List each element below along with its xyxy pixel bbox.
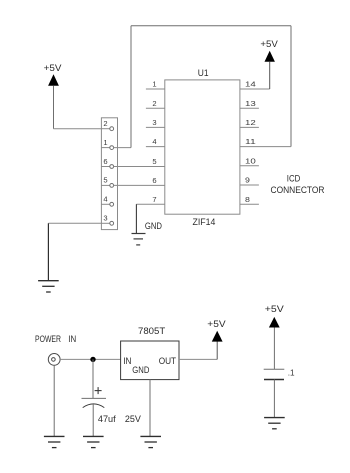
wire connector pin 3 left: [48, 222, 101, 224]
label POWER IN: [35, 334, 76, 345]
U1 pin 8 number: [245, 195, 250, 204]
wire jack to regulator IN: [60, 358, 121, 360]
svg-text:6: 6: [152, 176, 156, 185]
regulator pin label OUT: [159, 356, 177, 367]
svg-text:ZIF14: ZIF14: [193, 217, 217, 228]
svg-text:+5V: +5V: [265, 304, 285, 315]
U1 pin 12 lead: [240, 126, 259, 128]
power flag +5V arrow (top left): [48, 74, 59, 86]
ICD connector pin 5 lead and pad: [101, 184, 113, 188]
wire regulator GND down to ground: [149, 380, 151, 437]
svg-text:ICD: ICD: [287, 173, 301, 184]
svg-text:+5V: +5V: [207, 319, 226, 330]
wire regulator OUT right: [179, 358, 217, 360]
svg-text:.1: .1: [288, 369, 295, 378]
U1 pin 5 number: [152, 157, 156, 166]
svg-text:+5V: +5V: [260, 39, 278, 50]
ICD connector pin 1 lead and pad: [101, 146, 113, 150]
ICD connector pin 6 lead and pad: [101, 165, 113, 169]
power flag +5V label (top right): [260, 39, 278, 50]
ground (bypass capacitor): [264, 418, 285, 429]
ICD connector body: [101, 118, 117, 230]
svg-text:4: 4: [103, 195, 107, 204]
U1 pin 6 number: [152, 176, 156, 185]
svg-text:25V: 25V: [125, 414, 142, 425]
wire junction down to 47uf capacitor: [92, 359, 94, 398]
net label GND: [145, 221, 162, 232]
U1 pin 13 number: [245, 99, 256, 108]
svg-text:3: 3: [103, 214, 107, 223]
wire U1 pin 7 down to ground: [135, 204, 137, 233]
label CONNECTOR: [271, 185, 325, 196]
svg-text:10: 10: [245, 156, 256, 165]
ground (47uf capacitor): [83, 436, 104, 447]
capacitor 47uf polarity plus sign: [95, 387, 102, 394]
U1 pin 4 number: [152, 137, 156, 146]
ground (connector pin 3): [38, 281, 59, 292]
svg-text:GND: GND: [132, 365, 149, 376]
wire connector pin 3 down to ground: [47, 223, 49, 280]
U1 pin 13 lead: [240, 107, 259, 109]
svg-text:4: 4: [152, 137, 156, 146]
svg-text:7: 7: [152, 195, 156, 204]
U1 pin 11 lead: [240, 146, 291, 148]
svg-text:CONNECTOR: CONNECTOR: [271, 185, 325, 196]
svg-text:U1: U1: [198, 68, 209, 79]
capacitor value label 47uf 25V: [98, 414, 142, 425]
wire loop left vertical: [130, 26, 132, 148]
U1 pin 12 number: [245, 118, 256, 127]
svg-text:+5V: +5V: [44, 63, 62, 74]
svg-text:13: 13: [245, 99, 256, 108]
svg-text:5: 5: [103, 176, 107, 185]
capacitor value label .1: [288, 369, 295, 378]
svg-text:IN: IN: [68, 334, 76, 345]
U1 pin 1 number: [152, 80, 156, 89]
svg-text:1: 1: [152, 80, 156, 89]
wire loop right vertical to U1 pin 11: [290, 26, 292, 147]
wire connector pin 6 to U1 pin 5: [114, 166, 165, 168]
svg-text:14: 14: [245, 80, 256, 89]
ICD connector pin 1 number: [103, 138, 107, 147]
power flag +5V label (top left): [44, 63, 62, 74]
regulator label 7805T: [138, 326, 165, 337]
regulator 7805T body: [121, 341, 179, 380]
U1 value label ZIF14: [193, 217, 217, 228]
U1 reference designator: [198, 68, 209, 79]
U1 pin 9 lead: [240, 184, 259, 186]
U1 pin 8 lead: [240, 203, 259, 205]
U1 pin 11 number: [245, 137, 256, 146]
svg-text:1: 1: [103, 138, 107, 147]
svg-text:2: 2: [103, 119, 107, 128]
svg-text:IN: IN: [123, 356, 131, 367]
ICD connector pin 3 number: [103, 214, 107, 223]
capacitor 47uf plates (electrolytic): [82, 398, 107, 407]
power flag +5V arrow (regulator output): [212, 331, 223, 342]
svg-text:POWER: POWER: [35, 334, 61, 345]
power flag +5V label (regulator output): [207, 319, 226, 330]
wire +5V down to bypass capacitor: [273, 328, 275, 370]
wire +5V flag down to U1 pin 14: [269, 62, 271, 89]
wire connector pin 5 to U1 pin 6: [114, 184, 165, 186]
ICD connector pin 4 lead and pad: [101, 202, 113, 206]
svg-text:9: 9: [245, 176, 250, 185]
ICD connector pin 3 lead and pad: [101, 221, 113, 225]
IC U1 body (ZIF14 socket): [165, 80, 240, 214]
power flag +5V arrow (top right): [265, 51, 275, 62]
U1 pin 4 lead: [146, 146, 165, 148]
U1 pin 9 number: [245, 176, 250, 185]
wire connector pin 1 to loop corner: [114, 147, 131, 149]
svg-text:47uf: 47uf: [98, 414, 116, 425]
wire up to output +5V flag: [216, 342, 218, 360]
wire loop top horizontal: [131, 25, 291, 27]
wire +5V to ICD connector pin 2: [54, 128, 102, 130]
svg-text:6: 6: [103, 157, 107, 166]
U1 pin 2 lead: [146, 107, 165, 109]
U1 pin 10 number: [245, 156, 256, 165]
svg-text:11: 11: [245, 137, 256, 146]
ICD connector pin 6 number: [103, 157, 107, 166]
svg-text:GND: GND: [145, 221, 162, 232]
U1 pin 14 lead: [240, 88, 270, 90]
U1 pin 3 lead: [146, 126, 165, 128]
power flag +5V arrow (bypass capacitor): [269, 317, 280, 328]
svg-text:3: 3: [152, 118, 156, 127]
U1 pin 2 number: [152, 99, 156, 108]
U1 pin 3 number: [152, 118, 156, 127]
wire jack down to ground: [53, 365, 55, 436]
ground (regulator): [140, 436, 161, 447]
U1 pin 7 lead: [136, 203, 164, 205]
regulator pin label GND: [132, 365, 149, 376]
label ICD: [287, 173, 301, 184]
wire bypass capacitor down to ground: [273, 380, 275, 418]
U1 pin 10 lead: [240, 165, 259, 167]
capacitor .1 plates (bypass): [264, 369, 285, 379]
ICD connector pin 4 number: [103, 195, 107, 204]
svg-text:7805T: 7805T: [138, 326, 165, 337]
svg-text:OUT: OUT: [159, 356, 177, 367]
svg-text:12: 12: [245, 118, 256, 127]
ground (jack): [44, 436, 65, 447]
svg-text:5: 5: [152, 157, 156, 166]
ICD connector pin 5 number: [103, 176, 107, 185]
ground (U1 pin 7 GND): [132, 234, 146, 245]
U1 pin 14 number: [245, 80, 256, 89]
regulator pin label IN: [123, 356, 131, 367]
U1 pin 7 number: [152, 195, 156, 204]
junction dot (input node): [90, 357, 95, 362]
power jack (POWER IN): [48, 354, 60, 366]
U1 pin 1 lead: [146, 88, 165, 90]
ICD connector pin 2 lead and pad: [101, 127, 113, 131]
power flag +5V label (bypass capacitor): [265, 304, 285, 315]
wire +5V flag down: [53, 86, 55, 129]
ICD connector pin 2 number: [103, 119, 107, 128]
svg-text:8: 8: [245, 195, 250, 204]
wire 47uf capacitor down to ground: [92, 404, 94, 436]
svg-text:2: 2: [152, 99, 156, 108]
